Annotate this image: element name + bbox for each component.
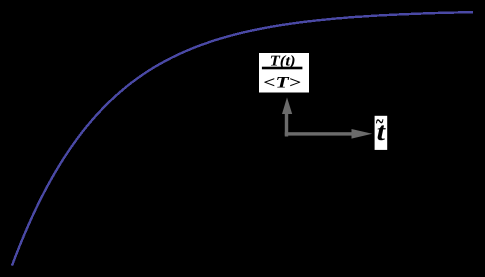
svg-text:~: ~ [376, 109, 384, 134]
arrowhead: vertical axis (up) [282, 97, 292, 114]
label box: t tilde [375, 116, 388, 150]
arrowhead: horizontal axis (right) [352, 129, 373, 139]
wire: horizontal axis shaft [285, 132, 353, 135]
axis origin / L corner [282, 97, 372, 138]
svg-text:<T>: <T> [263, 74, 301, 91]
label box: T(t)/<T> [259, 53, 309, 93]
wire: vertical axis shaft [285, 112, 288, 137]
fraction bar [262, 67, 303, 70]
